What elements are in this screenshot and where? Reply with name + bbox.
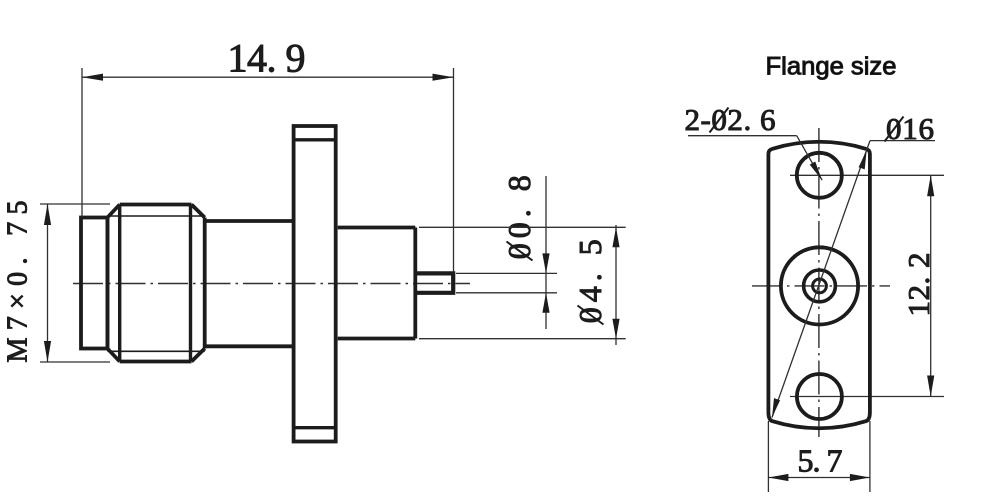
dim 5.7 dimension line xyxy=(768,477,870,479)
pin extension lines for dia 0.8 xyxy=(456,272,557,274)
label 2-dia2.6 leader xyxy=(688,135,797,137)
svg-text:00. 8: 00. 8 xyxy=(501,175,537,259)
svg-text:14. 9: 14. 9 xyxy=(228,36,306,81)
label dia16 leader and diagonal xyxy=(870,140,935,142)
flange vertical centerline xyxy=(818,128,820,437)
dim dia4.5 dimension line xyxy=(615,225,617,345)
svg-text:12. 2: 12. 2 xyxy=(901,253,936,317)
svg-text:Flange size: Flange size xyxy=(766,53,897,81)
bottom mounting hole xyxy=(797,374,842,419)
hex flat boundary lines xyxy=(118,205,121,362)
dim 14.9 dimension line xyxy=(82,76,454,78)
connector front tip rect xyxy=(81,218,108,349)
pin xyxy=(415,273,453,292)
hex chamfer tangent lines xyxy=(107,215,204,217)
top mounting hole xyxy=(797,153,842,198)
center inner circle xyxy=(813,279,827,293)
flange outline front view xyxy=(768,142,870,428)
dim M7x0.75 extension lines xyxy=(40,203,110,205)
top hole centerline / 12.2 ext xyxy=(790,174,944,176)
barrel between hex and flange xyxy=(205,219,294,223)
svg-text:04. 5: 04. 5 xyxy=(572,239,608,323)
centerline side view xyxy=(73,283,470,285)
flange side view xyxy=(294,126,336,442)
dim 12.2 dimension line xyxy=(930,175,932,396)
center outer circle xyxy=(781,247,858,324)
flange horizontal centerline center xyxy=(752,285,890,287)
body extension lines for dia 4.5 xyxy=(419,226,626,228)
svg-text:2-02. 6: 2-02. 6 xyxy=(685,102,776,137)
svg-text:5. 7: 5. 7 xyxy=(798,443,843,479)
dim 5.7 extension lines xyxy=(767,421,769,492)
dim dia0.8 dimension line xyxy=(545,176,547,329)
rear body xyxy=(338,228,416,339)
dim M7x0.75 dimension line xyxy=(47,204,49,362)
bottom hole centerline / 12.2 ext xyxy=(790,396,944,398)
svg-text:M7×0. 75: M7×0. 75 xyxy=(3,201,34,363)
hex nut outline xyxy=(107,205,204,362)
dim 14.9 extension lines xyxy=(81,68,83,217)
center middle circle xyxy=(804,270,836,302)
